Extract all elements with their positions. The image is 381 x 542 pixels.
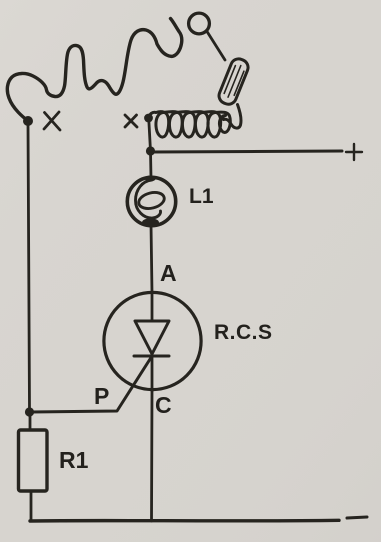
svg-text:P: P [94,383,109,409]
node: left top junction dot [23,116,33,126]
svg-text:R.C.S: R.C.S [214,321,273,344]
node X (right crossing mark) [125,115,137,127]
wire: junction to R1 [29,413,32,430]
svg-text:C: C [155,392,172,418]
wire: horizontal to + terminal [151,151,343,152]
wire: bottom rail [30,519,339,523]
svg-text:A: A [160,260,177,286]
ball of vibrating contact [189,13,210,34]
inductor coil [149,112,231,137]
+ terminal [346,144,362,160]
wire: rod from ball to cylinder [207,32,225,61]
wire: R1 to bottom rail [30,491,33,521]
wire: hook from cylinder to coil end [224,105,241,129]
node: gate/R1 junction dot [25,407,34,416]
wire: flexible squiggly lead from left node to ball [7,19,182,122]
cylinder (hatched body) [217,56,251,106]
wire: gate lead to P [31,356,152,412]
wire: cathode down to bottom rail [150,391,153,521]
wire: left vertical lead [28,124,30,410]
svg-text:L1: L1 [189,185,214,208]
wire: lamp to SCR anode [151,224,152,293]
lamp L1 [127,177,175,225]
wire: coil node down to supply node [149,118,151,151]
thyristor R.C.S [104,292,201,389]
- terminal [347,517,367,518]
node: supply junction dot [146,146,155,155]
node X (left crossing mark) [44,112,60,130]
wire: supply node to lamp [149,151,152,178]
resistor R1 [19,430,48,491]
node: coil input dot [144,114,153,123]
svg-text:R1: R1 [59,447,89,473]
